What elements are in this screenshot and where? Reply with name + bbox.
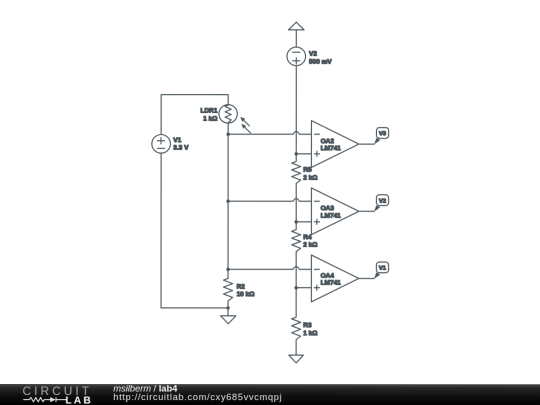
- node N3 junction dot: [294, 286, 297, 289]
- CircuitLab logo schematic doodle (wire resistor diode): [23, 397, 66, 402]
- svg-text:1 kΩ: 1 kΩ: [203, 116, 217, 123]
- svg-text:LM741: LM741: [321, 280, 342, 287]
- svg-text:OA3: OA3: [321, 205, 335, 212]
- wire node N2 to OA3 non-inverting input: [296, 221, 311, 223]
- wire V1 top to LDR1 top: [161, 95, 228, 135]
- svg-text:2 kΩ: 2 kΩ: [303, 242, 317, 249]
- node A junction dot: [226, 133, 229, 136]
- power flag VCC arrow top: [288, 22, 304, 30]
- svg-text:V2: V2: [309, 51, 317, 58]
- wire V1 bottom to ground rail: [161, 153, 228, 308]
- svg-text:R3: R3: [303, 322, 312, 329]
- flag V1: [376, 262, 388, 273]
- wire node C to OA4 inverting input (hop over ladder): [228, 267, 311, 270]
- wire V2 bottom to node N1: [295, 66, 297, 154]
- flag V3 pointer: [374, 138, 380, 144]
- resistor R5: [292, 154, 301, 222]
- voltage source V2: [287, 47, 306, 66]
- wire node N3 to OA4 non-inverting input: [296, 287, 311, 289]
- wire OA3 output: [359, 210, 374, 212]
- flag V1 pointer: [374, 272, 380, 278]
- wire VCC arrow to V2 top: [295, 30, 297, 47]
- wire node A to OA2 inverting input (hop over ladder): [228, 131, 311, 134]
- node C junction dot: [226, 268, 229, 271]
- label V1 value 3.3 V: [173, 137, 189, 152]
- svg-text:R2: R2: [237, 283, 246, 290]
- node D junction dot (R2 bottom / V1 return): [226, 306, 229, 309]
- label LDR1 value 1 kOhm: [200, 108, 217, 123]
- node N2 junction dot: [294, 220, 297, 223]
- wire node A down to node B: [227, 134, 229, 201]
- wire LDR1 bottom to node A: [227, 123, 229, 135]
- svg-text:V2: V2: [379, 198, 386, 204]
- svg-text:OA4: OA4: [321, 272, 335, 279]
- label R4 value 2 kOhm: [303, 234, 317, 249]
- label R2 value 10 kOhm: [237, 283, 255, 298]
- wire node B down to node C: [227, 201, 229, 269]
- label R5 value 2 kOhm: [303, 167, 317, 182]
- label V2 value 500 mV: [309, 51, 332, 66]
- svg-text:LDR1: LDR1: [200, 108, 217, 115]
- svg-text:500 mV: 500 mV: [309, 59, 332, 66]
- voltage source V1: [152, 135, 171, 154]
- node B junction dot: [226, 200, 229, 203]
- CircuitLab logo wordmark CIRCUIT: [23, 384, 93, 398]
- svg-text:2 kΩ: 2 kΩ: [303, 175, 317, 182]
- wire OA4 output: [359, 277, 374, 279]
- op-amp OA2: [311, 121, 359, 168]
- resistor R4: [292, 222, 301, 288]
- svg-text:V1: V1: [379, 266, 387, 272]
- svg-text:R5: R5: [303, 167, 312, 174]
- svg-text:LM741: LM741: [321, 145, 342, 152]
- footer url: [113, 392, 282, 402]
- photoresistor LDR1: [219, 105, 251, 133]
- ground symbol bottom: [289, 355, 304, 363]
- svg-text:1 kΩ: 1 kΩ: [303, 330, 317, 337]
- svg-text:V3: V3: [379, 131, 387, 137]
- wire node N1 to OA2 non-inverting input: [296, 153, 311, 155]
- svg-text:3.3 V: 3.3 V: [173, 145, 189, 152]
- resistor R3: [292, 288, 301, 355]
- flag V3: [376, 128, 388, 139]
- svg-text:OA2: OA2: [321, 138, 335, 145]
- svg-text:http://circuitlab.com/cxy685vv: http://circuitlab.com/cxy685vvcmqpj: [113, 392, 282, 402]
- node N1 junction dot (ladder top): [295, 152, 298, 155]
- label R3 value 1 kOhm: [303, 322, 317, 337]
- wire OA2 output: [359, 143, 374, 145]
- svg-text:V1: V1: [173, 137, 181, 144]
- label OA2 LM741: [321, 138, 342, 152]
- label OA3 LM741: [321, 205, 342, 219]
- op-amp OA3: [311, 188, 359, 235]
- flag V2: [376, 195, 388, 206]
- ground symbol left: [221, 308, 236, 324]
- footer text msilberm / lab4: [113, 384, 178, 394]
- label OA4 LM741: [321, 272, 342, 286]
- flag V2 pointer: [374, 205, 380, 211]
- svg-text:10 kΩ: 10 kΩ: [237, 291, 255, 298]
- svg-text:LAB: LAB: [65, 396, 93, 405]
- CircuitLab logo wordmark LAB: [65, 396, 93, 405]
- svg-text:R4: R4: [303, 234, 312, 241]
- svg-text:LM741: LM741: [321, 212, 342, 219]
- resistor R2: [223, 269, 232, 308]
- footer bar: [0, 384, 540, 405]
- wire node B to OA3 inverting input (hop over ladder): [228, 198, 311, 201]
- op-amp OA4: [311, 255, 359, 302]
